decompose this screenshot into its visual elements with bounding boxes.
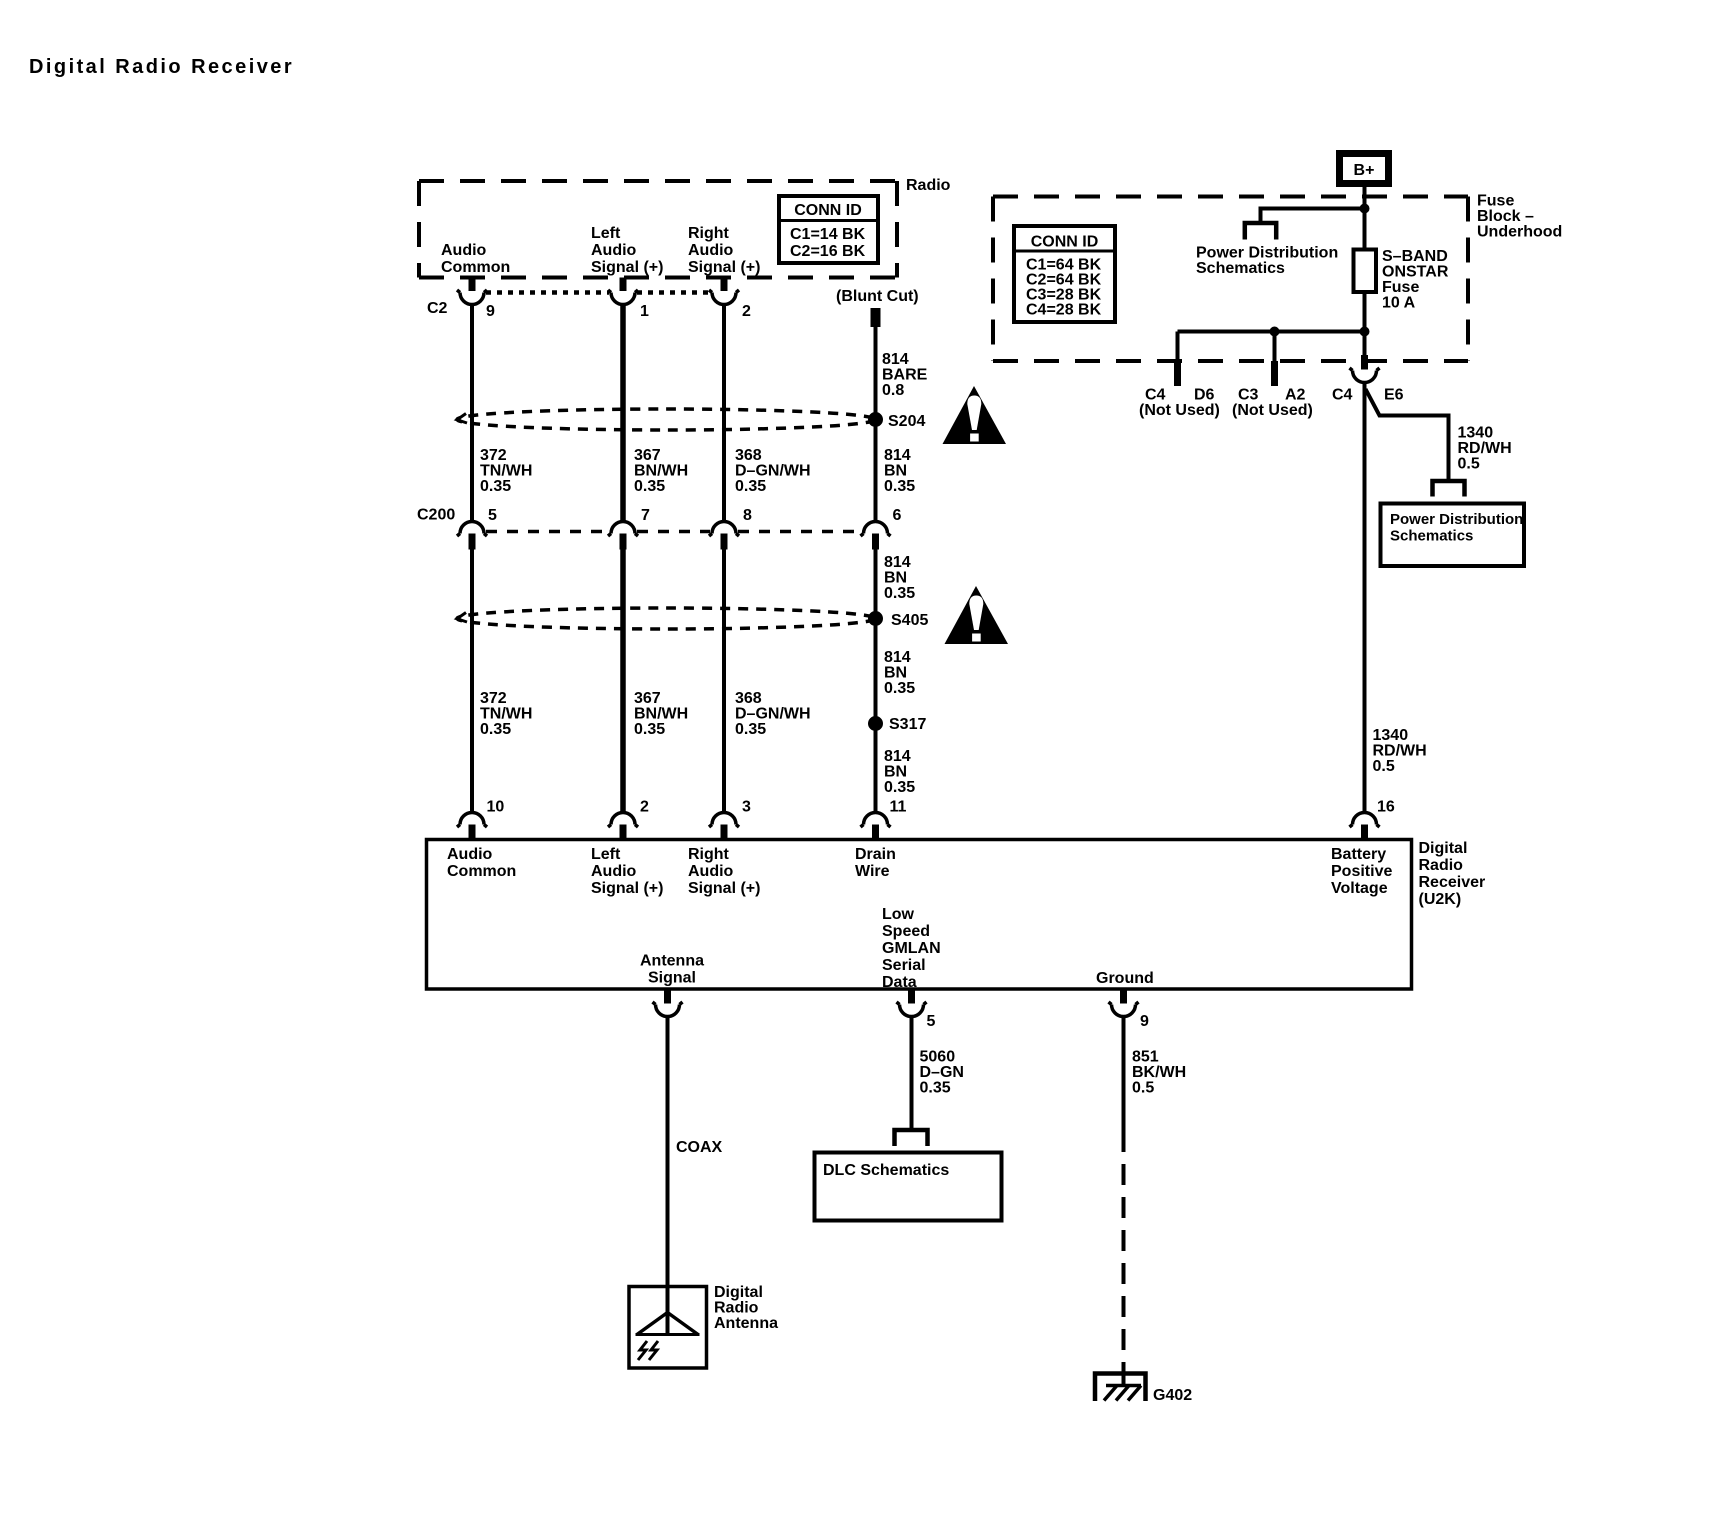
receiver pin 2 terminal bbox=[608, 813, 638, 828]
connector C4 E6 stub bbox=[1361, 355, 1368, 370]
svg-text:C4: C4 bbox=[1332, 387, 1353, 404]
fuse block dashed box bbox=[993, 197, 1468, 362]
power distribution off-page connector symbol bbox=[1245, 223, 1276, 240]
svg-text:7: 7 bbox=[641, 507, 650, 524]
wire 368 D-GN/WH lower bbox=[722, 550, 726, 814]
svg-text:C1=14 BK: C1=14 BK bbox=[790, 226, 866, 243]
svg-text:S317: S317 bbox=[889, 716, 926, 733]
connector C2 pin 9 stub bbox=[469, 278, 476, 292]
connector C200 pin 8 stub bbox=[721, 534, 728, 550]
connector C2 pin 2 stub bbox=[721, 278, 728, 292]
connector C2 pin 1 stub bbox=[620, 278, 627, 292]
wire 368 D-GN/WH upper (right audio) bbox=[722, 304, 726, 522]
svg-text:8: 8 bbox=[743, 507, 752, 524]
connector C200 pin 8 terminal bbox=[709, 522, 739, 537]
fuse block CONN ID table bbox=[1014, 226, 1115, 322]
wire 5060 D-GN bbox=[910, 1017, 914, 1129]
receiver pin 3 terminal bbox=[709, 813, 739, 828]
svg-text:5: 5 bbox=[488, 507, 497, 524]
wire 851 BK/WH end part bbox=[1122, 1362, 1126, 1385]
receiver pin 11 stub bbox=[872, 825, 879, 841]
svg-text:(Not Used): (Not Used) bbox=[1232, 402, 1313, 419]
svg-text:C4: C4 bbox=[1145, 387, 1166, 404]
svg-text:G402: G402 bbox=[1153, 1387, 1192, 1404]
svg-text:COAX: COAX bbox=[676, 1139, 723, 1156]
svg-text:Radio: Radio bbox=[906, 177, 951, 194]
svg-text:11: 11 bbox=[890, 799, 907, 816]
wire 367 BN/WH lower bbox=[620, 550, 626, 814]
connector C2 pin 2 terminal bbox=[709, 290, 739, 305]
wire C4/D6 stub bbox=[1176, 332, 1180, 362]
splice S204 bbox=[868, 412, 883, 427]
connector C200 pin 7 stub bbox=[620, 534, 627, 550]
connector C200 pin 6 stub bbox=[872, 534, 879, 550]
receiver antenna pin stub bbox=[664, 989, 671, 1004]
DLC off-page connector symbol bbox=[895, 1130, 928, 1146]
svg-text:E6: E6 bbox=[1384, 387, 1404, 404]
svg-text:AntennaSignal: AntennaSignal bbox=[640, 953, 704, 987]
receiver pin 2 stub bbox=[620, 825, 627, 841]
wire to power distribution reference bbox=[1261, 209, 1365, 223]
svg-text:2: 2 bbox=[640, 799, 649, 816]
svg-text:C2: C2 bbox=[427, 300, 448, 317]
connector C2 pin 9 terminal bbox=[457, 290, 487, 305]
wire 372 TN/WH upper (audio common) bbox=[470, 304, 474, 522]
fuse S-BAND ONSTAR 10A bbox=[1354, 250, 1377, 293]
receiver pin 10 terminal bbox=[457, 813, 487, 828]
svg-text:D6: D6 bbox=[1194, 387, 1215, 404]
svg-text:DLC Schematics: DLC Schematics bbox=[823, 1162, 949, 1179]
splice S405 bbox=[868, 611, 883, 626]
svg-text:9: 9 bbox=[486, 303, 495, 320]
receiver pin 5 stub bbox=[908, 989, 915, 1004]
twisted shield ellipse 1 bbox=[457, 409, 875, 430]
svg-text:2: 2 bbox=[742, 303, 751, 320]
radio dashed box bbox=[419, 181, 897, 278]
svg-text:3: 3 bbox=[742, 799, 751, 816]
wire 814 BARE drain upper bbox=[874, 327, 878, 522]
connector C200 pin 7 terminal bbox=[608, 522, 638, 537]
ground G402 symbol bbox=[1095, 1374, 1146, 1402]
svg-text:10: 10 bbox=[487, 799, 505, 816]
wire 851 BK/WH dashed part bbox=[1122, 1131, 1126, 1362]
svg-text:S204: S204 bbox=[888, 413, 925, 430]
DLC Schematics box bbox=[815, 1153, 1002, 1221]
svg-text:B+: B+ bbox=[1354, 162, 1375, 179]
svg-text:CONN ID: CONN ID bbox=[1031, 234, 1099, 251]
connector C2 pin 1 terminal bbox=[608, 290, 638, 305]
power distribution off-page connector symbol 2 bbox=[1433, 481, 1465, 497]
svg-text:6: 6 bbox=[893, 507, 902, 524]
twisted shield ellipse 2 bbox=[457, 608, 875, 629]
svg-text:Digital Radio Receiver: Digital Radio Receiver bbox=[29, 56, 294, 78]
svg-text:C2=16 BK: C2=16 BK bbox=[790, 243, 866, 260]
receiver pin 5 terminal bbox=[897, 1002, 927, 1017]
wire 372 TN/WH lower bbox=[470, 550, 474, 814]
wire 851 BK/WH solid part bbox=[1122, 1017, 1126, 1131]
svg-text:16: 16 bbox=[1377, 799, 1395, 816]
connector C200 body dashed line bbox=[486, 530, 862, 534]
wire fuse to connector C4 E6 bbox=[1363, 332, 1367, 362]
svg-text:C4=28 BK: C4=28 BK bbox=[1026, 302, 1102, 319]
wire fuse output bus bbox=[1178, 330, 1365, 334]
receiver pin 16 terminal bbox=[1350, 813, 1380, 828]
svg-text:BatteryPositiveVoltage: BatteryPositiveVoltage bbox=[1331, 846, 1392, 897]
splice S317 bbox=[868, 716, 883, 731]
warning triangle 2 bbox=[945, 586, 1009, 644]
receiver pin 16 stub bbox=[1361, 825, 1368, 841]
receiver pin 10 stub bbox=[469, 825, 476, 841]
warning triangle 1 bbox=[943, 386, 1007, 444]
receiver pin 3 stub bbox=[721, 825, 728, 841]
wire 814 BN drain lower bbox=[874, 550, 878, 814]
connector C4 E6 terminal bbox=[1350, 368, 1380, 383]
svg-text:Ground: Ground bbox=[1096, 970, 1154, 987]
blunt cut end symbol bbox=[871, 308, 881, 327]
svg-text:CONN ID: CONN ID bbox=[794, 202, 862, 219]
junction node main branch bbox=[1360, 327, 1370, 337]
digital radio antenna box bbox=[629, 1287, 707, 1369]
connector C2 body dotted line bbox=[486, 290, 710, 295]
connector C200 pin 6 terminal bbox=[861, 522, 891, 537]
wire B+ to fuse bbox=[1363, 187, 1367, 332]
wire 367 BN/WH upper (left audio) bbox=[620, 304, 626, 522]
svg-text:S405: S405 bbox=[891, 612, 928, 629]
wire C3/A2 stub bbox=[1273, 332, 1277, 362]
receiver pin 9 stub bbox=[1120, 989, 1127, 1004]
receiver pin 9 terminal bbox=[1109, 1002, 1139, 1017]
radio CONN ID table bbox=[779, 196, 878, 263]
junction node at B+ feed bbox=[1360, 204, 1370, 214]
svg-text:C3: C3 bbox=[1238, 387, 1259, 404]
digital radio receiver box U2K bbox=[427, 840, 1412, 990]
ellipse 2 left tip hook bbox=[457, 613, 467, 623]
ellipse 1 left tip hook bbox=[457, 414, 467, 424]
svg-text:C200: C200 bbox=[417, 507, 455, 524]
receiver antenna pin terminal bbox=[653, 1002, 683, 1017]
battery feed B+ box bbox=[1340, 154, 1389, 184]
svg-text:(Blunt Cut): (Blunt Cut) bbox=[836, 288, 919, 305]
svg-text:A2: A2 bbox=[1285, 387, 1306, 404]
receiver pin 11 terminal bbox=[861, 813, 891, 828]
svg-text:9: 9 bbox=[1140, 1013, 1149, 1030]
connector C3 A2 not used stub bbox=[1271, 361, 1278, 386]
svg-text:5: 5 bbox=[927, 1013, 936, 1030]
connector C4 D6 not used stub bbox=[1174, 361, 1181, 386]
Power Distribution Schematics box bbox=[1381, 504, 1525, 567]
svg-text:(Not Used): (Not Used) bbox=[1139, 402, 1220, 419]
svg-text:1: 1 bbox=[640, 303, 649, 320]
antenna symbol bbox=[636, 1313, 700, 1361]
wire 1340 RD/WH main bbox=[1363, 383, 1367, 813]
wire 1340 RD/WH branch diagonal bbox=[1366, 389, 1449, 480]
coax antenna wire bbox=[666, 1017, 670, 1334]
connector C200 pin 5 stub bbox=[469, 534, 476, 550]
connector C200 pin 5 terminal bbox=[457, 522, 487, 537]
junction node C3/A2 branch bbox=[1270, 327, 1280, 337]
